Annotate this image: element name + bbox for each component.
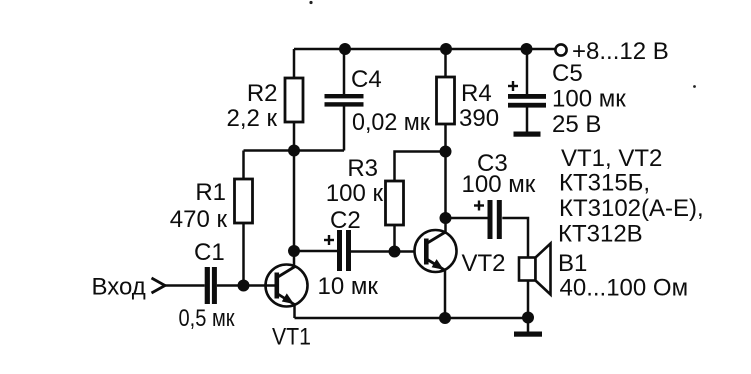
svg-text:40...100 Ом: 40...100 Ом (560, 275, 689, 302)
wire R2 bottom lead (293, 122, 296, 151)
wire R4 top lead (444, 49, 447, 77)
wire speaker bottom lead (527, 281, 530, 319)
svg-text:R4: R4 (461, 80, 492, 107)
wire C1 to VT1 base (217, 284, 266, 287)
wire top supply rail (294, 48, 556, 51)
svg-text:C4: C4 (351, 66, 382, 93)
resistor R1 (170, 179, 253, 233)
capacitor C3 (462, 150, 536, 239)
svg-text:25 В: 25 В (552, 111, 601, 138)
junction R1-base (238, 280, 250, 292)
wire VT2 base lead (395, 250, 425, 253)
svg-text:VT1: VT1 (272, 324, 311, 351)
wire R1 top lead (242, 151, 245, 180)
svg-text:Вход: Вход (92, 274, 146, 301)
svg-text:470 к: 470 к (170, 206, 228, 233)
svg-text:R1: R1 (195, 179, 226, 206)
junction R3-base (389, 246, 401, 258)
capacitor C5 (508, 60, 626, 138)
svg-text:R3: R3 (347, 155, 378, 182)
junction C5-rail (521, 43, 533, 55)
wire C4 bottom lead (343, 106, 346, 150)
svg-text:КТ312В: КТ312В (558, 221, 643, 248)
junction speaker-ground (522, 312, 534, 324)
junction R3-collector riser (440, 146, 452, 158)
svg-text:R2: R2 (247, 80, 278, 107)
svg-text:0,5 мк: 0,5 мк (179, 305, 235, 332)
wire VT1 collector riser (293, 151, 296, 268)
wire C5 bottom lead (526, 108, 529, 132)
junction collector-C2 (288, 245, 300, 257)
wire C3 to speaker (502, 218, 528, 258)
svg-text:100 к: 100 к (326, 180, 384, 207)
resistor R3 (326, 155, 404, 225)
wire C3 left lead (446, 217, 488, 220)
svg-text:C1: C1 (194, 239, 225, 266)
wire VT2 emitter drop (444, 270, 447, 318)
svg-text:10 мк: 10 мк (318, 273, 379, 300)
svg-text:КТ315Б,: КТ315Б, (559, 170, 650, 197)
wire R1 bottom lead (242, 223, 245, 286)
svg-text:100 мк: 100 мк (462, 171, 536, 198)
svg-text:2,2 к: 2,2 к (226, 105, 277, 132)
junction collector-C3 (440, 212, 452, 224)
node transistor types note (558, 145, 704, 248)
wire C4 top lead (343, 49, 346, 94)
speaker B1 (519, 244, 688, 302)
ground chassis bar common (514, 332, 542, 337)
resistor R2 (226, 78, 303, 132)
wire R3 top lead (395, 152, 446, 182)
wire C5 top lead (526, 49, 529, 95)
wire bottom common rail (295, 317, 529, 320)
resistor R4 (437, 77, 500, 132)
svg-text:0,02 мк: 0,02 мк (352, 109, 430, 136)
node input arrow (152, 278, 166, 293)
wire R3 bottom lead (393, 225, 396, 252)
wire C2 right lead (351, 250, 395, 253)
junction C4-rail (339, 43, 351, 55)
svg-text:B1: B1 (558, 250, 587, 277)
svg-text:C2: C2 (330, 207, 361, 234)
junction R4-rail (440, 43, 452, 55)
svg-text:VT1, VT2: VT1, VT2 (561, 145, 662, 172)
junction R2-bias (288, 145, 300, 157)
svg-text:390: 390 (459, 105, 499, 132)
wire ground drop (527, 318, 530, 332)
wire R2 top lead (293, 49, 296, 78)
wire VT1 emitter drop (293, 304, 296, 318)
wire bias line R1 to C4 (244, 149, 345, 152)
wire VT2 collector riser (444, 152, 447, 233)
wire C2 left lead (294, 250, 337, 253)
capacitor C1 (179, 239, 235, 332)
wire R4 bottom lead (444, 124, 447, 152)
svg-text:+8...12 В: +8...12 В (572, 38, 669, 65)
svg-text:100 мк: 100 мк (552, 86, 626, 113)
junction VT2 emitter-rail (439, 312, 451, 324)
transistor VT1 (266, 265, 312, 351)
wire input to C1 (164, 284, 205, 287)
transistor VT2 (415, 230, 506, 277)
capacitor C2 (318, 207, 379, 300)
capacitor C4 (325, 66, 431, 136)
svg-text:КТ3102(А-Е),: КТ3102(А-Е), (559, 195, 704, 222)
node power terminal (open circle) (555, 44, 566, 55)
svg-text:VT2: VT2 (462, 250, 506, 277)
ground chassis bar C5 (514, 132, 541, 137)
